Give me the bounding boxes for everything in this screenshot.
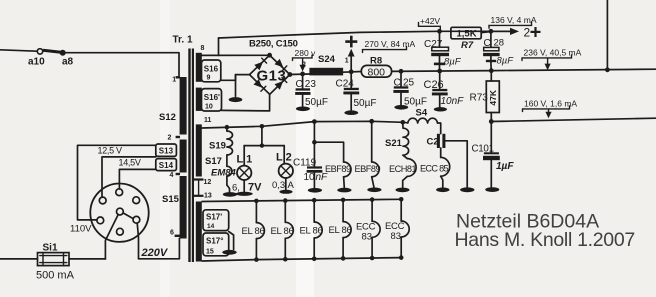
heater EL86-3 (312, 198, 322, 261)
svg-text:Si1: Si1 (43, 243, 58, 254)
label C123 (296, 79, 317, 90)
heater ECC85 (441, 148, 450, 187)
socket pin left (97, 217, 104, 224)
terminal 1 (172, 77, 180, 84)
label EBF89-1 (325, 164, 351, 174)
label C101 (472, 144, 494, 155)
label 50uF of C124 (354, 98, 377, 109)
label C119 (293, 157, 317, 168)
tap box S13 (156, 144, 177, 156)
arrow 270V up (348, 49, 355, 72)
svg-text:C119: C119 (293, 157, 317, 168)
svg-text:1: 1 (172, 77, 176, 84)
node C128 top (489, 29, 494, 34)
heater ECC83-1 (370, 197, 380, 260)
label C27 (424, 39, 443, 50)
terminal 12 tick (194, 179, 211, 186)
label 270 V, 84 mA with bracket (363, 39, 416, 53)
svg-text:1µF: 1µF (496, 161, 514, 172)
svg-text:+42V: +42V (420, 16, 440, 26)
terminal 1 of S24 (345, 58, 349, 65)
node S19 (225, 125, 230, 130)
svg-text:R73: R73 (470, 93, 489, 104)
svg-text:C26: C26 (424, 79, 444, 91)
wire 160V line (491, 118, 656, 121)
title Hans M. Knoll 1.2007 (455, 229, 635, 251)
label 8uF of C128 (497, 56, 515, 67)
heater bus from terminal 11 (202, 121, 408, 128)
svg-text:50µF: 50µF (404, 96, 427, 107)
label Tr. 1 (173, 35, 193, 46)
svg-text:R8: R8 (370, 56, 382, 67)
bridge rectifier G13 diamond (250, 55, 290, 94)
svg-text:12,5 V: 12,5 V (98, 146, 123, 156)
label a10 (28, 57, 45, 68)
wire terminal 8 to bridge top (202, 54, 270, 56)
coil S21 (403, 122, 409, 155)
svg-text:14,5V: 14,5V (119, 158, 141, 168)
selector wire center pin to fuse line (105, 215, 118, 260)
svg-text:S16: S16 (204, 65, 219, 74)
label Si1 (43, 243, 58, 254)
wire S4 to C2 (438, 123, 441, 134)
svg-text:2: 2 (168, 135, 172, 142)
svg-text:50µF: 50µF (305, 97, 328, 108)
svg-text:9: 9 (207, 75, 211, 82)
svg-text:47K: 47K (488, 89, 498, 105)
svg-text:ECC 85: ECC 85 (420, 164, 449, 174)
wire S16' terminal 10 to bridge bottom (222, 94, 270, 111)
node S21 drop (401, 120, 406, 125)
node bus x608 (605, 67, 610, 72)
svg-text:S19: S19 (209, 140, 226, 151)
ground of ECC85 (436, 188, 449, 193)
label S19 (209, 140, 226, 151)
wire 1,5K to node 2 (481, 32, 491, 33)
svg-text:8: 8 (201, 45, 205, 52)
svg-text:S14: S14 (159, 161, 174, 170)
wire right pin to 220V line (137, 223, 138, 259)
svg-text:10: 10 (304, 172, 316, 183)
svg-text:6,: 6, (232, 183, 240, 194)
label 1uF of C101 (496, 161, 514, 172)
label ECC83-2 (385, 221, 405, 242)
svg-text:EM84: EM84 (211, 167, 237, 178)
ground of C124 (344, 110, 358, 115)
node EBF89-2 drop (369, 119, 374, 124)
svg-text:A: A (288, 180, 295, 191)
label C26 (424, 79, 444, 91)
svg-text:EBF89: EBF89 (325, 164, 351, 174)
terminal 8 (201, 45, 205, 52)
winding box S16' (202, 89, 222, 111)
transformer primary winding S15 (bar) (180, 176, 187, 239)
wire mains bottom left to fuse (0, 258, 38, 260)
svg-text:C: C (394, 78, 401, 89)
svg-text:236 V, 40,5 mA: 236 V, 40,5 mA (524, 48, 582, 58)
svg-text:S17: S17 (205, 156, 222, 167)
label 125 V (98, 146, 123, 156)
svg-text:R7: R7 (461, 40, 474, 51)
heater EBF89-1 (344, 162, 351, 188)
socket pin top (116, 189, 123, 196)
wire fuse to socket center pin (69, 258, 105, 260)
svg-text:10: 10 (205, 104, 213, 111)
fuse Si1 (38, 253, 70, 266)
label S21 (385, 138, 403, 149)
svg-text:13: 13 (204, 192, 212, 199)
svg-text:8µF: 8µF (444, 57, 462, 68)
svg-text:L 2: L 2 (276, 152, 292, 164)
label C2 (427, 137, 439, 148)
socket pin right (133, 216, 140, 223)
label B250, C150 (249, 39, 298, 50)
label 136 V, 4 mA with bracket (489, 15, 537, 28)
svg-text:23: 23 (305, 79, 317, 90)
svg-text:EL 86: EL 86 (329, 225, 352, 236)
node bridge top (267, 53, 272, 58)
transformer primary winding S13/S14 section (bar) (180, 140, 187, 173)
label EM84 (211, 167, 237, 178)
node +42V / C27 (437, 29, 442, 34)
svg-text:10nF: 10nF (441, 96, 465, 107)
label S15 (162, 194, 180, 205)
label 220V (141, 247, 169, 259)
wire S13/S14 to socket top-left pin (102, 157, 156, 197)
wire C2 to ground line (445, 141, 467, 188)
label G13 (257, 68, 287, 85)
svg-text:28: 28 (494, 38, 505, 49)
svg-text:12: 12 (204, 179, 212, 186)
node C119/EBF89 link (312, 140, 317, 145)
wire S14 to socket top pin (119, 169, 155, 189)
svg-text:C2: C2 (427, 137, 439, 148)
svg-text:15: 15 (206, 249, 214, 256)
terminal 2 of S24 (302, 62, 306, 69)
svg-text:S21: S21 (385, 138, 403, 149)
label C 25 (394, 78, 415, 89)
svg-text:S13: S13 (159, 147, 174, 156)
svg-text:EL 86: EL 86 (271, 226, 294, 237)
transformer secondary winding S17'/S17deg (bar) (196, 202, 202, 262)
wire S16 terminal 9 to bridge left (221, 75, 250, 81)
svg-text:800: 800 (368, 66, 386, 78)
label ECC 85 (420, 164, 449, 174)
terminal 2 (168, 135, 181, 142)
svg-text:50µF: 50µF (354, 98, 377, 109)
winding box S17' (203, 210, 229, 231)
label EL86-4 (329, 225, 352, 236)
label 10nF of C26 (441, 96, 465, 107)
wire tap 12 to 13 (198, 180, 200, 196)
heater ECC83-2 (399, 197, 409, 260)
wire heater drop to lamps (244, 126, 284, 145)
capacitor C125 50uF (393, 71, 408, 105)
ground of C101 (485, 187, 499, 192)
ground of EM84 (223, 192, 237, 197)
label 280 v with bracket and arrow (293, 48, 317, 72)
svg-text:0,3: 0,3 (272, 180, 285, 191)
label EL86-3 (300, 225, 323, 236)
ground chassis at bridge left (229, 75, 243, 103)
transformer primary winding S12 (bar) (180, 77, 187, 135)
resistor R73 47K (486, 71, 499, 122)
ground of C2 line (460, 187, 474, 192)
transformer secondary winding S16' (bar) (196, 88, 202, 111)
socket pin top-right (133, 197, 140, 204)
main B+ bus from bridge (290, 73, 310, 76)
ground of ECH81 (396, 188, 410, 193)
switch a10/a8 (37, 49, 65, 56)
label 145V (119, 158, 141, 168)
wire switch to transformer terminal 1 (63, 53, 179, 76)
label C24 (336, 79, 355, 90)
svg-text:6: 6 (170, 230, 174, 237)
svg-text:136 V, 4 mA: 136 V, 4 mA (491, 15, 537, 25)
heater ladder top rail (202, 199, 401, 201)
terminal 6 (170, 230, 180, 237)
ground of EBF89-1 (337, 188, 351, 193)
svg-text:8µF: 8µF (497, 56, 515, 67)
svg-text:500 mA: 500 mA (36, 270, 75, 282)
ground chassis at S17 center tap (222, 232, 236, 255)
label C128 (484, 38, 505, 50)
ground of L1 (236, 192, 253, 196)
svg-text:220V: 220V (141, 247, 169, 259)
capacitor C27 8uF (431, 31, 449, 71)
svg-text:280 v: 280 v (295, 48, 317, 58)
label ECC83-1 (356, 222, 376, 243)
capacitor C124 50uF (343, 72, 359, 111)
capacitor C123 50uF (295, 74, 310, 107)
heater ladder bottom rail (202, 258, 401, 261)
title Netzteil B6D04A (456, 211, 599, 233)
terminal 4 (170, 172, 181, 179)
capacitor C101 1uF (483, 122, 500, 188)
label L 1 (237, 154, 253, 166)
svg-text:EL 86: EL 86 (242, 226, 265, 237)
capacitor C26 10nF (432, 71, 448, 107)
svg-text:L 1: L 1 (237, 154, 253, 166)
label S24 (318, 54, 336, 65)
resistor 1,5K (451, 27, 481, 39)
label 10nF of C119 (304, 172, 329, 183)
wire 220V bottom to transformer terminal 6 (139, 238, 180, 258)
node R8/C125 (399, 69, 404, 74)
label 6,3V (232, 182, 262, 194)
node C119 drop (312, 119, 317, 124)
label S17 (205, 156, 222, 167)
capacitor C2 (feedthrough) (437, 134, 446, 148)
svg-text:110V: 110V (70, 224, 92, 235)
arrow output 2 + (491, 26, 541, 40)
transformer secondary winding S16 (bar) (196, 53, 202, 82)
tap box S14 (156, 159, 177, 171)
ground of L2 (279, 190, 292, 194)
label 160 V, 1,6 mA with bracket and arrow (523, 99, 578, 119)
svg-text:11: 11 (204, 117, 212, 124)
svg-text:S17°: S17° (206, 237, 223, 246)
svg-text:C27: C27 (424, 39, 443, 50)
label a8 (62, 57, 74, 68)
heater EM84 (227, 166, 232, 192)
choke S24 (solid bar) (309, 68, 343, 76)
svg-text:S17': S17' (206, 213, 222, 222)
label L 2 (276, 152, 292, 164)
main B+ bus right section (392, 69, 656, 71)
svg-text:S16': S16' (204, 93, 220, 102)
node C26 top (437, 69, 442, 74)
diode top-right (275, 59, 287, 71)
terminal 11 (204, 117, 212, 124)
wire S24 to R8 (343, 71, 361, 74)
label R8 (370, 56, 382, 67)
resistor R8 800 (361, 65, 391, 78)
svg-text:Hans M. Knoll 1.2007: Hans M. Knoll 1.2007 (455, 229, 635, 251)
node lamp link (260, 143, 264, 147)
svg-text:S24: S24 (318, 54, 336, 65)
terminal 13 tick (194, 192, 212, 199)
node L1/L2 drop (260, 124, 265, 129)
svg-text:C101: C101 (472, 144, 494, 155)
label 500 mA (36, 270, 75, 282)
node bus C128/R73 (489, 68, 494, 73)
diode bottom-left (254, 79, 266, 91)
node 270V junction (349, 69, 354, 74)
svg-text:a8: a8 (62, 57, 74, 68)
wire vertical to top edge (606, 0, 608, 70)
svg-text:1,5K: 1,5K (457, 29, 477, 40)
label 0,3 A (272, 180, 295, 191)
svg-text:C24: C24 (336, 79, 355, 90)
socket pin top-left (99, 197, 106, 204)
label 8uF of C27 (444, 57, 462, 68)
label EL86-2 (271, 226, 294, 237)
ground of C119 (308, 188, 322, 193)
capacitor C128 8uF (483, 31, 500, 70)
svg-text:83: 83 (362, 232, 373, 243)
winding box S17deg (203, 233, 229, 256)
ground of EBF89-2 (367, 188, 381, 193)
svg-text:S4: S4 (416, 108, 428, 119)
label 50uF of C125 (404, 96, 427, 107)
svg-text:2: 2 (524, 26, 531, 40)
label EL86-1 (242, 226, 265, 237)
svg-text:Tr. 1: Tr. 1 (173, 35, 193, 46)
socket pin center (117, 208, 124, 215)
wire mains input left (0, 50, 37, 51)
svg-text:4: 4 (170, 172, 174, 179)
lamp L1 (237, 146, 251, 192)
label 110V (70, 224, 92, 235)
diode top-left (254, 58, 266, 70)
plus sign 270V (345, 36, 357, 48)
svg-text:270 V, 84 mA: 270 V, 84 mA (365, 39, 416, 49)
label ECH81 (389, 164, 417, 174)
winding box S16 (202, 60, 221, 82)
wire branch up to +42V line (218, 38, 220, 55)
svg-text:1: 1 (345, 58, 349, 65)
capacitor C119 10nF (307, 122, 323, 188)
voltage selector socket circle (90, 184, 148, 242)
socket pin bottom (117, 228, 124, 235)
heater EL86-2 (283, 198, 293, 261)
label EBF89-2 (355, 164, 381, 174)
wire 12.5V tap to socket left pin (110V) (78, 145, 156, 220)
label S12 (159, 112, 176, 123)
ground of C123 (296, 107, 310, 112)
wire C119 node to EBF89-1 (314, 142, 343, 162)
wire top +42V line (219, 31, 491, 38)
svg-text:G13: G13 (257, 68, 287, 85)
svg-text:B250, C150: B250, C150 (249, 39, 298, 50)
svg-text:S12: S12 (159, 112, 176, 123)
lamp L2 (279, 146, 293, 190)
choke S4 (408, 118, 438, 123)
selector link center to right pin (123, 213, 133, 219)
label 236 V, 40,5 mA with bracket and arrow (522, 48, 582, 71)
svg-text:25: 25 (403, 78, 415, 89)
ground of C125 (394, 105, 408, 110)
label S4 (416, 108, 428, 119)
svg-text:83: 83 (391, 231, 402, 242)
transformer secondary winding S19/S17 (bar) (196, 124, 202, 176)
heater EL86-1 (254, 199, 264, 262)
svg-text:C: C (296, 79, 303, 90)
svg-text:a10: a10 (28, 57, 45, 68)
heater ECH81 (403, 155, 416, 187)
heater EL86-4 (341, 198, 351, 261)
heater EBF89-2 (372, 121, 379, 187)
ground of C26 (434, 107, 447, 111)
node 160V line (489, 119, 494, 124)
diode bottom-right (275, 78, 287, 90)
svg-text:ECH81: ECH81 (389, 164, 417, 174)
svg-text:7V: 7V (248, 182, 262, 194)
label 50uF of C123 (305, 97, 328, 108)
label +42V with bracket (419, 16, 441, 31)
svg-text:14: 14 (207, 223, 215, 230)
label R7 (461, 40, 474, 51)
transformer core (188, 49, 194, 263)
svg-text:C: C (484, 38, 491, 49)
label R73 (470, 93, 489, 104)
coil S19/S17 (227, 127, 233, 166)
svg-text:EBF89: EBF89 (355, 164, 381, 174)
svg-text:EL 86: EL 86 (300, 225, 323, 236)
node C123 top (300, 72, 305, 77)
node bridge right (288, 72, 293, 77)
svg-text:S15: S15 (162, 194, 180, 205)
